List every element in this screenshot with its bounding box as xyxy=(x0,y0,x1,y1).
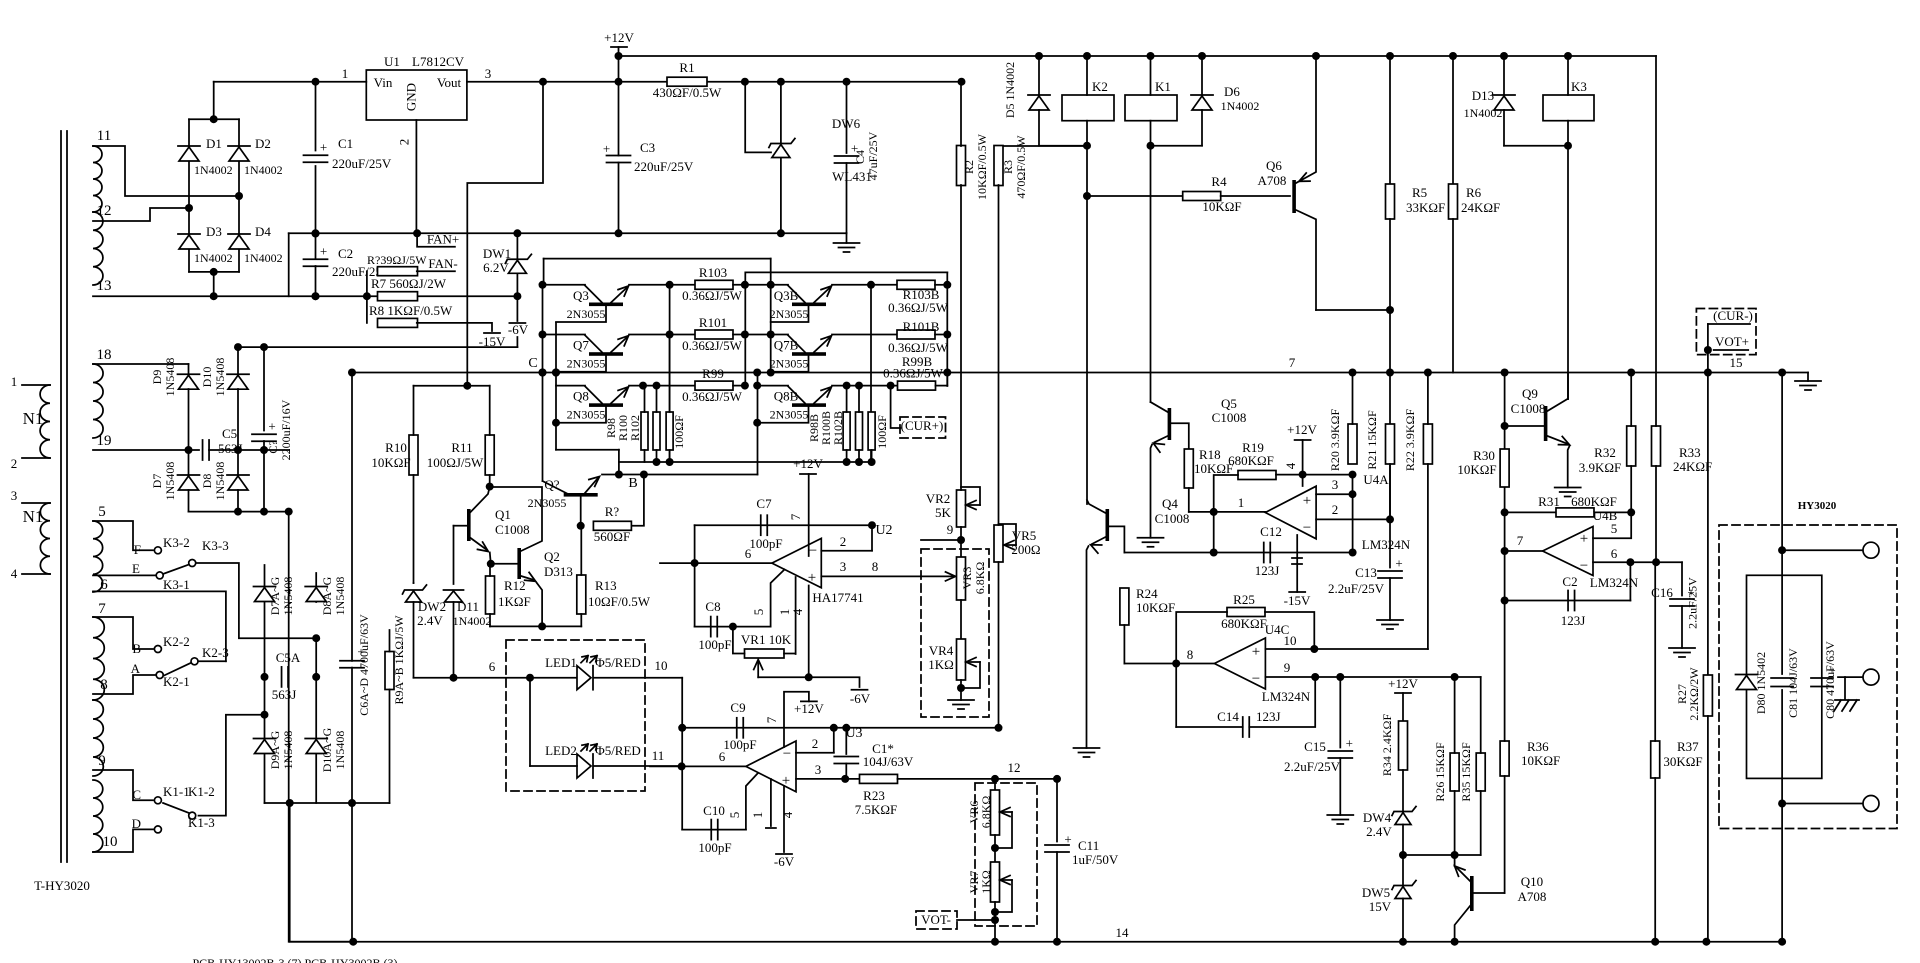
svg-text:R101: R101 xyxy=(699,315,727,330)
op-amp U4A LM324N xyxy=(1265,486,1316,539)
svg-text:D9A~G: D9A~G xyxy=(268,730,282,769)
resistor R10 xyxy=(409,435,418,475)
contact K2-2 xyxy=(154,646,161,653)
svg-text:C1008: C1008 xyxy=(1212,410,1247,425)
svg-text:−: − xyxy=(1252,671,1260,687)
transistor Q1 C1008 xyxy=(467,509,471,541)
resistor R3 xyxy=(994,146,1003,186)
wire pin3 xyxy=(22,502,50,504)
wire pin11 U4A xyxy=(1296,535,1298,592)
svg-text:1N4002: 1N4002 xyxy=(1221,99,1260,113)
svg-text:U2: U2 xyxy=(875,523,892,538)
winding xyxy=(40,385,50,458)
svg-text:10KΩF: 10KΩF xyxy=(371,455,410,470)
svg-text:D5 1N4002: D5 1N4002 xyxy=(1003,62,1017,118)
svg-text:K3-3: K3-3 xyxy=(202,538,229,553)
svg-text:R99: R99 xyxy=(702,366,724,381)
wire Q8B base xyxy=(757,407,808,423)
wire R21 bottom xyxy=(1389,464,1391,519)
resistor R1 xyxy=(667,77,707,86)
wire R102B btm xyxy=(871,450,873,462)
wire VR5 wiper xyxy=(1004,544,1016,546)
wire D6 bottom xyxy=(1201,110,1203,146)
svg-text:K3-1: K3-1 xyxy=(163,577,190,592)
capacitor C15 xyxy=(1328,736,1353,759)
wire Q1 emitter xyxy=(471,538,487,550)
LED LED2 xyxy=(577,744,597,778)
wire R24 bottom xyxy=(1123,625,1125,664)
svg-text:+12V: +12V xyxy=(1287,422,1317,437)
wire pin7 U2 xyxy=(808,474,810,556)
svg-text:24KΩF: 24KΩF xyxy=(1673,459,1712,474)
zener DW1 xyxy=(505,254,531,273)
resistor R2 xyxy=(957,146,966,186)
wire Q3 base xyxy=(556,307,606,323)
svg-text:VR2: VR2 xyxy=(926,491,951,506)
wire right top drop xyxy=(1655,56,1657,373)
wire Q7 emitter to R xyxy=(629,334,695,336)
wire VR6-VR7 xyxy=(994,835,996,862)
wire R34-DW4 xyxy=(1402,770,1404,811)
wire Q7B collector xyxy=(771,334,788,336)
svg-text:0.36ΩJ/5W: 0.36ΩJ/5W xyxy=(888,340,949,355)
wire Q4 base xyxy=(1109,526,1124,552)
wire C14 right xyxy=(1249,677,1315,727)
junction xyxy=(753,369,761,427)
svg-text:R12: R12 xyxy=(504,578,526,593)
wire D8 bottom xyxy=(237,490,239,512)
resistor R33 xyxy=(1652,426,1661,466)
wire Q3B collector xyxy=(771,284,788,286)
capacitor C9 xyxy=(737,718,744,738)
-6V bar xyxy=(509,322,525,324)
wire DW4-DW5 xyxy=(1402,825,1404,886)
svg-text:D4: D4 xyxy=(255,224,271,239)
junction xyxy=(185,446,269,454)
svg-text:+: + xyxy=(603,141,610,156)
wire pin4 xyxy=(22,573,50,575)
capacitor C8 xyxy=(711,617,718,637)
ground xyxy=(834,233,860,252)
svg-text:3.9KΩF: 3.9KΩF xyxy=(1579,460,1622,475)
resistor R11 xyxy=(485,435,494,475)
wire pin2 U4A xyxy=(1316,518,1390,520)
wire VR4 wiper xyxy=(966,661,980,663)
svg-text:7: 7 xyxy=(788,513,803,520)
wire Q? base down xyxy=(580,497,582,526)
resistor R32 xyxy=(1627,426,1636,466)
wire bankB emitter vertical xyxy=(870,285,872,462)
svg-text:1KΩ: 1KΩ xyxy=(928,657,954,672)
svg-text:+: + xyxy=(1395,556,1402,571)
wire R11 bottom xyxy=(489,475,491,487)
junction xyxy=(691,559,699,567)
resistor R20 xyxy=(1348,424,1357,464)
wire Q6 emitter xyxy=(1296,56,1316,183)
wire Q2 emitter xyxy=(521,576,534,580)
wire xyxy=(414,677,578,679)
wire K1 to Q5 xyxy=(1150,146,1152,402)
svg-text:R35 15KΩF: R35 15KΩF xyxy=(1459,742,1473,802)
resistor R23 xyxy=(860,774,898,783)
wire VR2 wiper xyxy=(966,504,980,506)
svg-text:C11: C11 xyxy=(1078,838,1099,853)
ground C13 xyxy=(1377,620,1403,629)
svg-text:10: 10 xyxy=(103,834,118,850)
wire R27 top xyxy=(1707,373,1709,676)
svg-text:R20 3.9KΩF: R20 3.9KΩF xyxy=(1328,409,1342,472)
svg-text:1N4002: 1N4002 xyxy=(244,251,283,265)
resistor R27 xyxy=(1703,675,1712,716)
junction xyxy=(1704,346,1712,354)
wire VR5 wiper L xyxy=(999,524,1017,545)
wire K3 top xyxy=(1567,56,1569,95)
svg-text:C1: C1 xyxy=(338,136,353,151)
wire bankB right bus xyxy=(946,272,948,386)
junction xyxy=(1778,546,1786,807)
svg-text:2N3055: 2N3055 xyxy=(528,496,567,510)
ground Q9 xyxy=(1555,488,1581,497)
wire +12V row xyxy=(467,81,962,83)
wire K2 to Q4 xyxy=(1086,146,1088,504)
svg-text:-6V: -6V xyxy=(774,854,795,869)
svg-text:33KΩF: 33KΩF xyxy=(1406,200,1445,215)
wire C1 top xyxy=(315,82,317,151)
wire R25 left xyxy=(1176,612,1227,664)
svg-text:FAN-: FAN- xyxy=(428,256,457,271)
junction xyxy=(729,623,737,631)
contact D xyxy=(154,826,161,833)
wire winding7 to B xyxy=(93,617,153,649)
resistor R9A~B xyxy=(385,652,394,690)
wire Q10 em up xyxy=(1454,855,1456,866)
svg-text:2N3055: 2N3055 xyxy=(567,357,606,371)
wiper arrow VR7 xyxy=(1000,876,1010,885)
wire R33 top xyxy=(1655,373,1657,427)
junction xyxy=(312,229,785,237)
resistor R31 xyxy=(1556,508,1594,517)
U1 body xyxy=(366,70,467,120)
svg-text:0.36ΩJ/5W: 0.36ΩJ/5W xyxy=(682,338,743,353)
wire D8A top stub xyxy=(315,573,317,602)
wire DW1 bottom xyxy=(516,274,518,322)
wire U3 pin2 xyxy=(796,752,834,754)
svg-text:1KΩ: 1KΩ xyxy=(979,870,993,894)
wire bridge to node13 xyxy=(213,272,215,296)
wire K1 top xyxy=(1150,56,1152,95)
svg-text:C5A: C5A xyxy=(276,650,301,665)
junction xyxy=(577,522,585,530)
wire R13 top xyxy=(580,526,582,575)
junction xyxy=(615,471,648,479)
wire -6V row U2 xyxy=(758,677,859,687)
svg-text:C: C xyxy=(528,356,537,371)
resistor R6 xyxy=(1449,184,1458,219)
svg-text:1: 1 xyxy=(342,66,349,81)
svg-text:1N4002: 1N4002 xyxy=(453,614,492,628)
svg-text:A: A xyxy=(131,661,141,676)
wire D11 top xyxy=(453,526,455,584)
svg-text:1N5408: 1N5408 xyxy=(163,358,177,397)
resistor R22 xyxy=(1423,424,1432,464)
wire R6 top xyxy=(1452,56,1454,184)
svg-text:R11: R11 xyxy=(451,440,472,455)
svg-text:GND: GND xyxy=(404,83,419,111)
svg-text:12: 12 xyxy=(1008,760,1021,775)
svg-text:R34 2.4KΩF: R34 2.4KΩF xyxy=(1380,714,1394,777)
svg-text:C12: C12 xyxy=(1260,524,1282,539)
wire VR4 wiper L xyxy=(961,662,980,688)
svg-text:C80 470uF/63V: C80 470uF/63V xyxy=(1823,641,1837,719)
svg-text:R26 15KΩF: R26 15KΩF xyxy=(1433,742,1447,802)
zener DW5 xyxy=(1392,881,1416,899)
capacitor C7 xyxy=(761,515,768,535)
wire input to Vin xyxy=(214,81,367,83)
svg-text:LED1: LED1 xyxy=(545,655,577,670)
svg-text:R10: R10 xyxy=(385,440,407,455)
svg-text:L7812CV: L7812CV xyxy=(412,54,465,69)
wire R22 top xyxy=(1427,373,1429,425)
junction xyxy=(450,674,535,682)
svg-text:R102: R102 xyxy=(628,415,642,441)
svg-text:6.8KΩ: 6.8KΩ xyxy=(973,562,987,595)
box HY3020 xyxy=(1719,525,1897,829)
svg-text:6.8KΩ: 6.8KΩ xyxy=(979,796,993,829)
capacitor C80 xyxy=(1811,662,1836,686)
transistor Q8B 2N3055 xyxy=(788,386,830,407)
potentiometer VR6 xyxy=(991,790,1000,835)
resistor R4 xyxy=(1183,192,1221,201)
capacitor C14 xyxy=(1243,717,1250,737)
svg-text:C2: C2 xyxy=(338,246,353,261)
winding 12-13 xyxy=(93,212,103,285)
svg-text:680KΩF: 680KΩF xyxy=(1221,616,1267,631)
wire R5-R21 column xyxy=(1389,219,1391,519)
svg-text:Q8: Q8 xyxy=(573,389,589,404)
wire pin5 U3 xyxy=(746,773,758,830)
junction xyxy=(210,292,522,300)
-15V bar xyxy=(484,332,500,334)
resistor R? xyxy=(593,521,631,530)
svg-text:1N4002: 1N4002 xyxy=(1464,106,1503,120)
relay K3 box xyxy=(1543,95,1594,121)
wire pin4 U2 xyxy=(808,586,810,678)
chassis ground xyxy=(1834,677,1859,711)
wire pin7 U4B xyxy=(1505,550,1543,552)
wire row13 right xyxy=(417,295,518,297)
wire VR6 top xyxy=(994,779,996,790)
wire R26 top xyxy=(1454,677,1456,753)
wire Q2 collector xyxy=(490,487,542,551)
svg-text:2: 2 xyxy=(1332,502,1339,517)
wire pin9 U4C xyxy=(1265,676,1480,678)
wire VOT- link xyxy=(957,919,995,921)
junction xyxy=(639,281,749,390)
ground C15 xyxy=(1327,815,1353,824)
wire D9-D7 mid xyxy=(188,389,190,475)
svg-text:6: 6 xyxy=(719,749,726,764)
wire C15 top xyxy=(1339,677,1341,748)
diode D10A~G xyxy=(305,739,327,754)
wire E xyxy=(93,574,156,576)
wire to terminal 1 xyxy=(1782,549,1864,551)
wire C13 bottom xyxy=(1389,578,1391,620)
wire R19 right xyxy=(1276,474,1353,476)
svg-text:D3: D3 xyxy=(206,224,222,239)
junction xyxy=(349,938,1786,946)
wire C6A bottom xyxy=(351,668,353,803)
wire R10 top xyxy=(413,386,415,435)
svg-text:K2: K2 xyxy=(1092,79,1108,94)
svg-text:12: 12 xyxy=(97,203,112,219)
wire Q5 collector diag xyxy=(1151,402,1168,412)
wire row13 left xyxy=(93,295,378,297)
svg-text:C8: C8 xyxy=(705,599,720,614)
wire R99B out xyxy=(936,385,948,387)
svg-text:1KΩF: 1KΩF xyxy=(498,594,531,609)
wire D13-K3 row xyxy=(1504,145,1568,147)
svg-text:U1: U1 xyxy=(384,54,400,69)
junction xyxy=(957,536,965,544)
wire bottom rail xyxy=(290,941,1782,943)
+12V bar U3 xyxy=(801,700,817,702)
wire winding12 to bridge xyxy=(93,208,189,221)
svg-text:DW2: DW2 xyxy=(418,599,446,614)
svg-text:K3: K3 xyxy=(1571,79,1587,94)
wire pin7 U3 xyxy=(784,692,809,747)
wire Q6 collector row xyxy=(1316,309,1390,311)
wire Q10 collector xyxy=(1455,906,1470,942)
svg-text:F: F xyxy=(134,542,141,557)
wire VR6 wiper L xyxy=(995,812,1012,848)
wire LED2 cathode row xyxy=(594,765,682,767)
wire C4 bottom xyxy=(846,163,848,233)
svg-text:1N5408: 1N5408 xyxy=(281,577,295,616)
diode D7 xyxy=(178,475,200,490)
svg-text:-6V: -6V xyxy=(850,691,871,706)
junction xyxy=(312,634,320,642)
wire node12 row xyxy=(898,778,1058,780)
wire winding10 to D contact xyxy=(93,829,153,852)
wire C16 top xyxy=(1681,562,1683,595)
wire R11 top xyxy=(489,386,491,435)
wire Q5 emitter down xyxy=(1151,445,1153,538)
resistor R103B xyxy=(897,280,935,289)
svg-text:10: 10 xyxy=(655,658,668,673)
resistor R30 xyxy=(1500,449,1509,487)
svg-text:7: 7 xyxy=(1517,533,1524,548)
svg-text:HA17741: HA17741 xyxy=(812,590,863,605)
svg-text:30KΩF: 30KΩF xyxy=(1663,754,1702,769)
junction xyxy=(1399,851,1407,859)
svg-text:N1: N1 xyxy=(23,409,44,428)
wiper arrow VR6 xyxy=(1000,808,1010,817)
svg-text:+: + xyxy=(1064,832,1071,847)
resistor R101B xyxy=(897,330,935,339)
svg-text:13: 13 xyxy=(97,278,112,294)
svg-text:10KΩF: 10KΩF xyxy=(1521,753,1560,768)
junction xyxy=(1349,490,1357,498)
wire R6 bottom xyxy=(1452,219,1454,373)
wire DW2 top xyxy=(413,582,415,584)
wire C16 bottom xyxy=(1681,606,1683,648)
svg-text:10KΩF: 10KΩF xyxy=(1202,199,1241,214)
svg-text:R13: R13 xyxy=(595,578,617,593)
transistor Q4 C1008 xyxy=(1106,509,1110,541)
diode D2 xyxy=(228,146,250,161)
transistor Q3B 2N3055 xyxy=(788,286,830,307)
svg-text:220uF/25V: 220uF/25V xyxy=(634,159,694,174)
svg-text:123J: 123J xyxy=(1255,563,1280,578)
-6V bar U2 xyxy=(852,689,868,691)
junction xyxy=(1451,851,1459,859)
wire winding5 to F xyxy=(93,521,153,550)
wire winding18 xyxy=(93,363,189,365)
winding 5-6 xyxy=(93,521,103,592)
wire Q7B base xyxy=(771,356,809,372)
wire node1 down xyxy=(1213,512,1215,553)
pin1 tick U3 xyxy=(766,827,776,829)
svg-text:C7: C7 xyxy=(756,496,772,511)
transistor Q7 2N3055 xyxy=(585,335,627,356)
svg-text:Q2: Q2 xyxy=(544,549,560,564)
wire D10-D8 mid xyxy=(237,389,239,475)
svg-text:R8 1KΩF/0.5W: R8 1KΩF/0.5W xyxy=(369,303,453,318)
diode D10 xyxy=(227,374,249,389)
junction xyxy=(1299,471,1357,479)
transistor Q7B 2N3055 xyxy=(788,335,830,356)
potentiometer VR5 xyxy=(994,525,1003,562)
wire winding19 xyxy=(93,449,199,451)
wire C13 top xyxy=(1389,519,1391,567)
svg-text:D8: D8 xyxy=(200,474,214,489)
svg-text:HY3020: HY3020 xyxy=(1798,500,1837,512)
svg-text:100pF: 100pF xyxy=(723,737,756,752)
wire pin4 U3 xyxy=(783,786,785,852)
svg-text:1N4002: 1N4002 xyxy=(194,163,233,177)
svg-text:11: 11 xyxy=(652,748,665,763)
capacitor C16 xyxy=(1670,585,1695,607)
svg-text:R?39ΩJ/5W: R?39ΩJ/5W xyxy=(367,253,427,267)
capacitor C? 2200uF xyxy=(252,419,276,442)
svg-text:2.2uF/25V: 2.2uF/25V xyxy=(1328,581,1385,596)
wire Q2 em down xyxy=(537,583,543,627)
capacitor C1 xyxy=(304,140,328,163)
wire R103 out xyxy=(733,284,771,286)
wire R bus xyxy=(744,285,746,388)
capacitor C5A xyxy=(282,667,289,687)
wire Q8 base xyxy=(556,407,606,423)
svg-text:R2: R2 xyxy=(962,160,976,174)
resistor R?39 xyxy=(378,267,418,276)
junction xyxy=(234,508,293,516)
svg-text:560ΩF: 560ΩF xyxy=(594,529,630,544)
wire C2 row xyxy=(1505,600,1631,602)
svg-text:7: 7 xyxy=(764,716,779,723)
junction xyxy=(234,343,268,351)
svg-text:2.4V: 2.4V xyxy=(417,613,443,628)
svg-text:11: 11 xyxy=(97,128,111,144)
wire xyxy=(602,474,758,476)
transistor Q10 A708 xyxy=(1470,876,1474,911)
svg-text:1: 1 xyxy=(750,812,765,819)
wire Q5 emitter diag xyxy=(1155,436,1168,442)
wire right long vertical xyxy=(1781,373,1783,675)
junction xyxy=(552,369,560,427)
diode D3 xyxy=(178,234,200,249)
svg-text:15: 15 xyxy=(1730,355,1743,370)
wire D9 top xyxy=(188,364,190,375)
